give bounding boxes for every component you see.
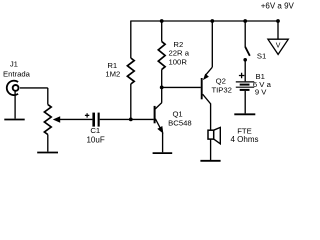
wire B1 bottom bbox=[244, 91, 246, 114]
ground speaker bbox=[200, 160, 220, 162]
svg-text:FTE: FTE bbox=[237, 126, 252, 135]
wire R1 top bbox=[130, 21, 132, 59]
switch S1 lever bbox=[245, 47, 250, 56]
wire potentiometer top bbox=[47, 88, 49, 105]
connector J1 shell arc bbox=[7, 81, 18, 95]
battery B1 plates bbox=[236, 81, 254, 83]
capacitor C1 right plate bbox=[98, 113, 100, 127]
ground Q1 emitter bbox=[153, 152, 173, 154]
switch S1 contact bbox=[243, 58, 247, 62]
connector J1 ring bbox=[13, 85, 19, 91]
svg-text:J1: J1 bbox=[10, 59, 18, 68]
svg-text:22R a: 22R a bbox=[169, 49, 190, 58]
svg-text:TIP32: TIP32 bbox=[211, 86, 232, 95]
node rail-V junction bbox=[276, 19, 280, 23]
wire J1 ground drop bbox=[14, 91, 16, 118]
wire S1 top bbox=[244, 21, 246, 47]
transistor Q2 base bar bbox=[201, 78, 203, 99]
transistor Q2 emitter arrowhead bbox=[203, 74, 209, 81]
node rail-S1 junction bbox=[243, 19, 247, 23]
svg-text:BC548: BC548 bbox=[168, 119, 192, 128]
power terminal V triangle bbox=[268, 39, 288, 54]
ground B1 bbox=[234, 113, 255, 115]
wire R2 top bbox=[161, 21, 163, 42]
wire J1 to potentiometer bbox=[20, 87, 48, 89]
svg-text:10uF: 10uF bbox=[86, 136, 104, 145]
speaker FTE body bbox=[208, 130, 214, 139]
wire S1 to B1 bbox=[244, 61, 246, 81]
svg-text:Entrada: Entrada bbox=[3, 70, 31, 79]
capacitor C1 plus sign bbox=[85, 113, 89, 117]
wire potentiometer bottom bbox=[47, 135, 49, 152]
svg-text:V: V bbox=[276, 42, 281, 49]
potentiometer RV1 element bbox=[44, 105, 51, 135]
speaker FTE cone bbox=[214, 127, 221, 143]
node R2/Q1-collector/Q2-base junction bbox=[160, 86, 164, 90]
ground potentiometer bbox=[37, 152, 58, 154]
wire Q1 collector vertical bbox=[161, 87, 163, 102]
transistor Q1 emitter lead bbox=[155, 119, 162, 131]
svg-text:4 Ohms: 4 Ohms bbox=[230, 135, 258, 144]
wire Q2 base bbox=[162, 86, 201, 88]
transistor Q1 collector lead bbox=[155, 103, 162, 109]
svg-text:Q1: Q1 bbox=[172, 110, 182, 119]
svg-text:+6V a 9V: +6V a 9V bbox=[261, 2, 295, 11]
svg-text:100R: 100R bbox=[169, 58, 188, 67]
wire Q1 emitter vertical bbox=[162, 133, 164, 153]
wire C1 to Q1 base bbox=[100, 118, 154, 120]
transistor Q2 emitter lead bbox=[205, 67, 212, 75]
battery B1 plus sign bbox=[239, 73, 244, 78]
svg-text:C1: C1 bbox=[90, 126, 100, 135]
ground J1 bbox=[4, 119, 24, 121]
transistor Q2 collector lead bbox=[203, 94, 211, 104]
svg-text:S1: S1 bbox=[257, 52, 266, 61]
svg-text:1M2: 1M2 bbox=[105, 69, 120, 78]
wire R2 bottom bbox=[161, 70, 163, 88]
svg-text:9 V: 9 V bbox=[255, 88, 267, 97]
potentiometer wiper arrowhead bbox=[53, 116, 60, 122]
node R1-base junction bbox=[129, 118, 133, 122]
wire wiper to C1 bbox=[59, 118, 92, 120]
transistor Q1 emitter arrowhead bbox=[157, 126, 163, 134]
capacitor C1 left plate bbox=[92, 113, 95, 127]
node rail-Q2 junction bbox=[210, 19, 214, 23]
transistor Q1 base bar bbox=[154, 106, 156, 123]
resistor R1 bbox=[127, 58, 134, 84]
wire Q2 collector vertical bbox=[210, 103, 212, 130]
wire top power rail bbox=[131, 20, 278, 22]
wire speaker bottom bbox=[210, 139, 212, 160]
node rail-R2 junction bbox=[160, 19, 164, 23]
resistor R2 bbox=[158, 42, 165, 70]
wire Q2 emitter vertical bbox=[211, 21, 213, 67]
wire V terminal bbox=[277, 21, 279, 39]
wire R1 bottom bbox=[130, 84, 132, 119]
svg-text:Q2: Q2 bbox=[216, 76, 226, 85]
